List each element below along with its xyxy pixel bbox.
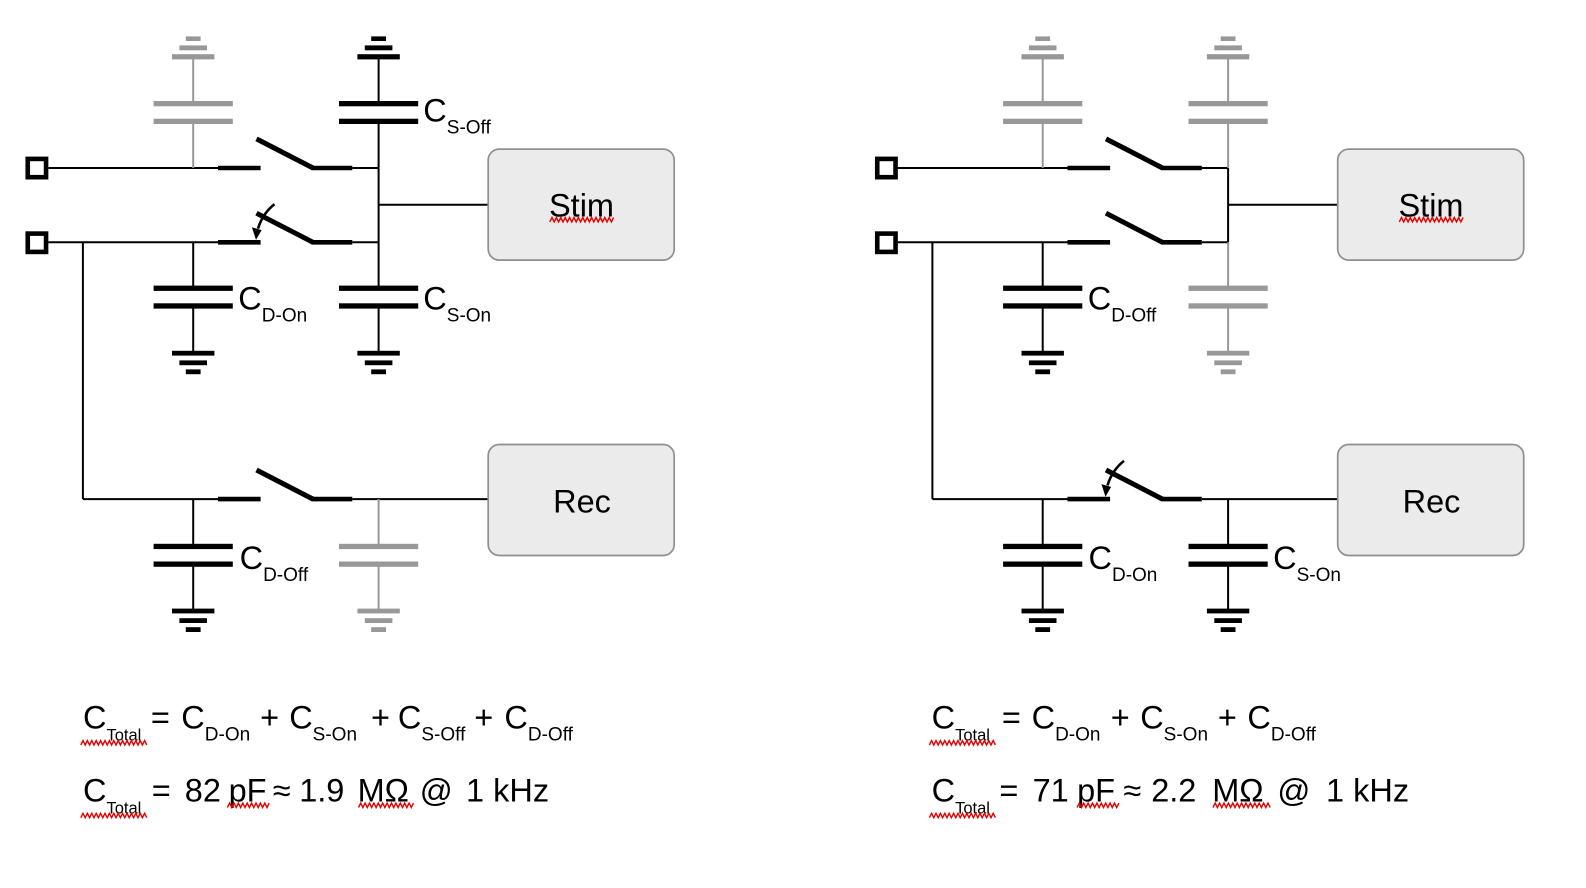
wire (grey) <box>1227 58 1229 102</box>
ground <box>172 609 214 632</box>
svg-text:CS-On: CS-On <box>1273 540 1341 586</box>
wire <box>1042 499 1044 544</box>
svg-text:@: @ <box>1277 772 1310 808</box>
svg-text:CTotal: CTotal <box>932 699 990 744</box>
capacitor C_D-On <box>154 286 233 309</box>
spellcheck squiggle under pF <box>227 803 269 807</box>
wire (grey) <box>1227 124 1229 169</box>
svg-text:1 kHz: 1 kHz <box>466 772 549 808</box>
spellcheck squiggle under MOhm <box>1213 803 1270 807</box>
capacitor (grey) <box>1189 101 1268 124</box>
svg-text:71: 71 <box>1033 772 1069 808</box>
spellcheck squiggle under C_Total <box>81 741 147 745</box>
box Rec <box>488 445 674 556</box>
ground <box>357 351 399 374</box>
spellcheck squiggle under MOhm <box>359 803 414 807</box>
wire <box>1042 566 1044 609</box>
formula line 1 (left): C_Total = C_D-On + C_S-On + C_S-Off + C_D-Off <box>83 699 574 745</box>
svg-text:CD-Off: CD-Off <box>1088 281 1157 327</box>
svg-text:CD-On: CD-On <box>181 699 250 745</box>
svg-text:=: = <box>999 772 1018 808</box>
svg-text:CD-On: CD-On <box>1089 540 1158 586</box>
ground <box>1207 609 1249 632</box>
wire <box>1042 308 1044 351</box>
switch S3 (open) <box>1068 470 1202 499</box>
wire <box>1227 499 1229 544</box>
svg-text:≈: ≈ <box>273 772 291 808</box>
wire <box>82 242 84 499</box>
svg-text:CS-On: CS-On <box>289 699 357 745</box>
wire (grey) <box>192 58 194 102</box>
ground (grey, inverted) <box>1207 36 1249 59</box>
svg-text:CTotal: CTotal <box>83 699 141 744</box>
ground (grey) <box>357 609 399 632</box>
capacitor C_S-On <box>1189 544 1268 567</box>
terminal pad 2 <box>877 234 895 252</box>
box Stim <box>488 149 674 260</box>
wire <box>1228 204 1338 206</box>
svg-text:CD-On: CD-On <box>238 281 307 327</box>
svg-text:+: + <box>260 699 279 735</box>
spellcheck squiggle under Stim <box>550 218 614 222</box>
box Rec <box>1338 445 1524 556</box>
wire <box>1042 242 1044 286</box>
wire (grey) <box>192 124 194 169</box>
wire <box>898 241 1068 243</box>
terminal pad 2 <box>28 234 46 252</box>
wire <box>1227 566 1229 609</box>
svg-text:=: = <box>151 699 170 735</box>
svg-text:CS-Off: CS-Off <box>398 699 466 745</box>
box Stim <box>1338 149 1524 260</box>
svg-text:1 kHz: 1 kHz <box>1326 772 1409 808</box>
spellcheck squiggle under C_Total <box>929 813 995 817</box>
svg-text:1.9: 1.9 <box>299 772 344 808</box>
switch S1 (open) <box>218 139 352 168</box>
ground (grey) <box>1207 351 1249 374</box>
svg-text:+: + <box>371 699 390 735</box>
wire (grey) <box>1227 308 1229 351</box>
wire <box>378 308 380 351</box>
capacitor C_S-Off <box>339 101 418 124</box>
capacitor (grey) <box>1003 101 1082 124</box>
capacitor C_D-Off <box>154 544 233 567</box>
wire (grey) <box>378 566 380 609</box>
svg-text:+: + <box>1111 699 1130 735</box>
svg-text:CD-Off: CD-Off <box>504 699 573 745</box>
svg-text:pF: pF <box>1077 772 1115 808</box>
formula line 1 (right): C_Total = C_D-On + C_S-On + C_D-Off <box>932 699 1317 745</box>
actuation arrow <box>1101 461 1124 497</box>
svg-text:Rec: Rec <box>1403 483 1461 519</box>
switch S1 (open) <box>1068 139 1202 168</box>
wire <box>192 308 194 351</box>
svg-text:CS-Off: CS-Off <box>423 93 491 139</box>
svg-text:@: @ <box>420 772 453 808</box>
svg-text:+: + <box>1218 699 1237 735</box>
wire <box>192 242 194 286</box>
ground (inverted) <box>357 36 399 59</box>
wire <box>931 242 933 499</box>
left circuit: shorted configuration <box>28 36 674 632</box>
terminal pad 1 <box>28 159 46 177</box>
wire <box>83 498 218 500</box>
spellcheck squiggle under C_Total <box>81 813 147 817</box>
wire <box>1202 498 1338 500</box>
capacitor C_S-On <box>339 286 418 309</box>
svg-text:CTotal: CTotal <box>83 772 141 817</box>
svg-text:82: 82 <box>185 772 221 808</box>
ground <box>172 351 214 374</box>
right circuit: open configuration <box>877 36 1523 632</box>
wire <box>1202 241 1228 243</box>
ground <box>1022 351 1064 374</box>
wire <box>898 167 1068 169</box>
wire <box>1202 167 1228 169</box>
wire <box>379 204 489 206</box>
svg-text:+: + <box>474 699 493 735</box>
switch S2 (open) <box>1068 213 1202 242</box>
wire <box>352 241 378 243</box>
wire <box>192 566 194 609</box>
terminal pad 1 <box>877 159 895 177</box>
svg-text:=: = <box>152 772 171 808</box>
formula line 2 (left): C_Total = 82 pF = 1.9 MOhm @ 1 kHz <box>83 772 549 817</box>
capacitor C_D-On <box>1003 544 1082 567</box>
wire <box>352 498 488 500</box>
svg-text:=: = <box>1002 699 1021 735</box>
spellcheck squiggle under C_Total <box>929 741 995 745</box>
wire <box>192 499 194 544</box>
wire (grey) <box>1227 242 1229 286</box>
wire (grey) <box>1042 124 1044 169</box>
formula line 2 (right): C_Total = 71 pF = 2.2 MOhm @ 1 kHz <box>932 772 1409 817</box>
capacitor (grey) <box>1189 286 1268 309</box>
svg-text:2.2: 2.2 <box>1151 772 1196 808</box>
capacitor (grey) <box>339 544 418 567</box>
wire (grey) <box>378 499 380 544</box>
wire <box>352 167 378 169</box>
svg-text:CD-On: CD-On <box>1032 699 1101 745</box>
wire <box>48 167 218 169</box>
svg-text:CD-Off: CD-Off <box>240 540 309 586</box>
spellcheck squiggle under pF <box>1077 803 1119 807</box>
svg-text:CTotal: CTotal <box>932 772 990 817</box>
wire <box>378 58 380 102</box>
switch S3 (open) <box>218 470 352 499</box>
spellcheck squiggle under Stim <box>1399 218 1463 222</box>
svg-text:CS-On: CS-On <box>1140 699 1208 745</box>
ground <box>1022 609 1064 632</box>
capacitor (grey) <box>154 101 233 124</box>
ground (grey, inverted) <box>172 36 214 59</box>
wire <box>378 124 380 287</box>
wire <box>48 241 218 243</box>
actuation arrow <box>252 204 275 240</box>
svg-text:CS-On: CS-On <box>423 281 491 327</box>
ground (grey, inverted) <box>1022 36 1064 59</box>
svg-text:≈: ≈ <box>1123 772 1141 808</box>
capacitor C_D-Off <box>1003 286 1082 309</box>
svg-text:CD-Off: CD-Off <box>1247 699 1316 745</box>
wire <box>1227 168 1229 242</box>
wire (grey) <box>1042 58 1044 102</box>
wire <box>932 498 1067 500</box>
svg-text:Rec: Rec <box>553 483 611 519</box>
switch S2 (open) <box>218 213 352 242</box>
